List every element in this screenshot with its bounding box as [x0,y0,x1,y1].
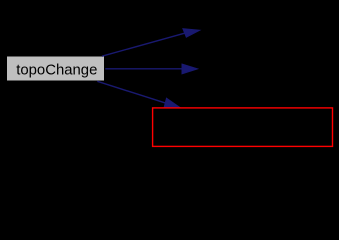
arrowhead edge3 [164,98,180,107]
wire edge2 [105,68,182,70]
arrowhead edge1 [183,29,200,38]
wire edge3 [97,81,166,103]
node red-box [153,108,333,146]
wire edge1 [102,33,185,56]
arrowhead edge2 [182,64,198,74]
node topoChange [7,57,104,81]
svg-text:topoChange: topoChange [16,62,97,78]
